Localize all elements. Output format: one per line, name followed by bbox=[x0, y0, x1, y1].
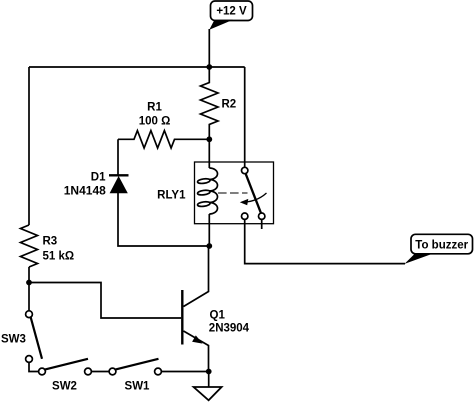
wire left rail down bbox=[28, 67, 30, 225]
svg-text:D1: D1 bbox=[91, 172, 106, 184]
svg-text:SW3: SW3 bbox=[1, 334, 26, 346]
wire coil bottom to node bbox=[208, 214, 210, 246]
diode D1 bbox=[64, 172, 129, 198]
wire emitter node to ground bbox=[208, 372, 210, 387]
svg-text:R2: R2 bbox=[222, 99, 237, 111]
svg-text:2N3904: 2N3904 bbox=[209, 323, 250, 335]
wire relay NC to buzzer bbox=[245, 219, 405, 263]
wire node to coil top bbox=[208, 139, 210, 168]
resistor R3 bbox=[21, 225, 38, 267]
relay dashed actuation line bbox=[218, 192, 248, 194]
relay NO contact bbox=[259, 213, 265, 219]
node junction R1/R2/coil bbox=[206, 136, 212, 142]
wire node to SW3 bbox=[28, 283, 30, 311]
node junction coil/collector bbox=[206, 243, 212, 249]
switch SW3 bbox=[1, 311, 42, 363]
svg-text:100 Ω: 100 Ω bbox=[139, 116, 171, 128]
transistor Q1 bbox=[182, 246, 249, 372]
switch SW1 bbox=[109, 359, 161, 393]
svg-text:R3: R3 bbox=[43, 236, 58, 248]
relay common contact bbox=[242, 167, 248, 173]
resistor R2 bbox=[201, 67, 237, 139]
relay RLY1 box bbox=[195, 162, 274, 224]
wire base branch bbox=[29, 283, 181, 319]
node junction top bbox=[206, 64, 212, 70]
svg-text:1N4148: 1N4148 bbox=[64, 184, 106, 198]
svg-text:51 kΩ: 51 kΩ bbox=[43, 251, 75, 263]
relay NC contact bbox=[242, 213, 248, 219]
wire R1 left down to diode bbox=[117, 139, 119, 175]
svg-text:SW2: SW2 bbox=[52, 381, 77, 393]
wire SW1 to emitter node bbox=[161, 371, 208, 373]
relay lever bbox=[246, 174, 261, 214]
svg-text:Q1: Q1 bbox=[210, 310, 226, 322]
resistor R1 bbox=[118, 102, 209, 149]
svg-text:SW1: SW1 bbox=[125, 381, 151, 393]
relay arrow bbox=[240, 193, 267, 205]
wire SW3 to SW2 bbox=[29, 362, 39, 371]
svg-text:+12 V: +12 V bbox=[216, 6, 247, 18]
ground bbox=[194, 387, 222, 400]
relay NO stub bbox=[261, 219, 263, 229]
switch SW2 bbox=[39, 359, 92, 393]
svg-text:R1: R1 bbox=[147, 102, 162, 114]
node junction emitter bbox=[206, 369, 212, 375]
wire top rail bbox=[29, 66, 245, 68]
net flag +12V bbox=[209, 1, 252, 30]
wire R3 to node bbox=[28, 267, 30, 283]
wire diode down and right to coil node bbox=[118, 193, 209, 246]
relay coil bbox=[197, 168, 217, 214]
svg-text:To buzzer: To buzzer bbox=[415, 239, 468, 251]
node junction R3/base bbox=[26, 280, 32, 286]
svg-text:RLY1: RLY1 bbox=[157, 190, 186, 202]
wire SW2 to SW1 bbox=[91, 371, 109, 373]
wire +12V down to top rail bbox=[208, 29, 210, 67]
wire top rail right down to relay common bbox=[244, 67, 246, 167]
net flag To buzzer bbox=[405, 234, 473, 264]
